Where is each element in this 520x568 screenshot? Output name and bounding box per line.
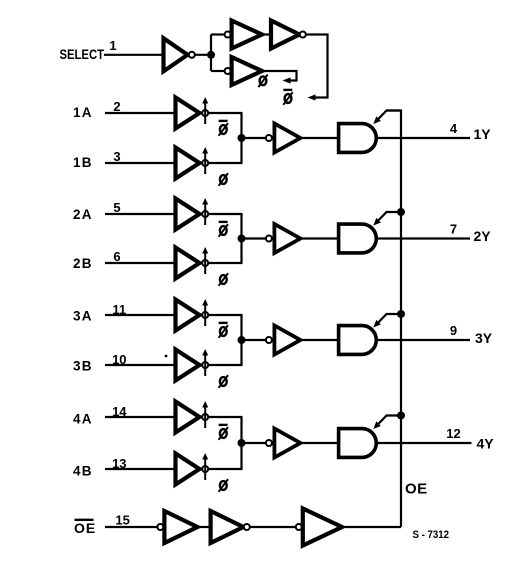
wire buffer to gate 1Y (300, 137, 337, 139)
svg-text:3: 3 (113, 149, 120, 164)
input label 3B (73, 359, 93, 374)
wire SELECT input (104, 54, 164, 56)
svg-text:2Y: 2Y (474, 228, 492, 244)
node OE tap 2Y (397, 208, 405, 216)
output label 2Y (474, 228, 492, 244)
wire 4B input (105, 468, 174, 470)
wire 3A input (105, 314, 174, 316)
AND gate G3Y (339, 326, 377, 355)
label phi (top) (258, 75, 267, 88)
inverter U4 (phi chain, input bubble) (225, 57, 262, 85)
pin 13 (112, 456, 126, 471)
wire U5 to U6 (198, 526, 211, 528)
pin 6 (113, 249, 120, 264)
buffer U3Y (input bubble) (266, 326, 301, 355)
svg-text:1B: 1B (73, 155, 93, 170)
input label 3A (73, 309, 93, 324)
net SELECT: input label (60, 46, 105, 62)
wire OE stub to gate 2Y (373, 212, 401, 226)
wire output 4Y (376, 442, 471, 444)
svg-text:15: 15 (115, 513, 129, 528)
input label 1B (73, 155, 93, 170)
wire output 1Y (376, 137, 470, 139)
wire 3A to junction (208, 315, 241, 340)
wire OE stub to gate 4Y (373, 416, 401, 430)
label phi-bar (4A control) (219, 425, 228, 440)
wire 4B to junction (208, 443, 241, 469)
net OE label (405, 481, 428, 498)
buffer 3B (phase-controlled) (176, 349, 209, 381)
pin 3 (113, 149, 120, 164)
svg-text:3Y: 3Y (475, 330, 493, 346)
label phi (3B control) (219, 375, 228, 388)
buffer U2Y (input bubble) (266, 224, 301, 253)
wire buffer to gate 4Y (300, 442, 337, 444)
wire output 2Y (376, 237, 470, 239)
AND gate G1Y (339, 124, 377, 153)
wire U7 to OE bus (342, 526, 401, 528)
wire U6 to U7 (250, 526, 295, 528)
wire OE-bar input (105, 526, 157, 528)
buffer U3 (output bubble) (271, 21, 306, 49)
wire 2B to junction (208, 239, 241, 264)
net OE-bar: input label with overline (74, 520, 96, 536)
svg-text:4Y: 4Y (477, 436, 495, 452)
buffer 4B (phase-controlled) (176, 453, 209, 485)
svg-text:5: 5 (113, 200, 120, 215)
svg-text:OE: OE (405, 481, 428, 498)
wire U2 to U3 (262, 33, 271, 35)
AND gate G4Y (339, 429, 377, 458)
label phi-bar (top) (283, 90, 292, 105)
svg-text:2: 2 (113, 99, 120, 114)
pin 11 (112, 302, 126, 317)
svg-text:7: 7 (450, 222, 457, 237)
output label 1Y (474, 126, 492, 142)
pin 14 (112, 404, 127, 419)
svg-text:S - 7312: S - 7312 (413, 529, 450, 541)
svg-text:1A: 1A (73, 105, 93, 120)
input label 4A (73, 412, 93, 427)
wire 1B to junction (208, 138, 241, 163)
label phi-bar (3A control) (219, 323, 228, 338)
output label 3Y (475, 330, 493, 346)
wire phi-bar routing (306, 35, 327, 101)
pin 9 (450, 323, 457, 338)
wire OE stub to gate 3Y (373, 314, 401, 328)
buffer 3A (phase-controlled) (176, 299, 209, 331)
svg-text:1Y: 1Y (474, 126, 492, 142)
wire 4A to junction (208, 417, 241, 443)
input label 1A (73, 105, 93, 120)
inverter U5 (OE chain, input bubble) (157, 511, 197, 543)
pin 1 (109, 38, 116, 53)
wire 2A to junction (208, 214, 241, 239)
pin 7 (450, 222, 457, 237)
label phi-bar (2A control) (219, 222, 228, 237)
wire junction to buffer 3Y (242, 339, 267, 341)
output label 4Y (477, 436, 495, 452)
buffer 1A (phase-controlled) (176, 97, 209, 129)
pin 12 (446, 426, 460, 441)
buffer U1Y (input bubble) (266, 124, 301, 153)
node speck (165, 355, 168, 358)
wire OE stub to gate 1Y (373, 111, 401, 125)
svg-text:6: 6 (113, 249, 120, 264)
svg-text:4B: 4B (73, 464, 93, 479)
input label 4B (73, 464, 93, 479)
svg-text:SELECT: SELECT (60, 46, 105, 62)
pin 15 (115, 513, 129, 528)
wire 3B input (105, 364, 174, 366)
pin 5 (113, 200, 120, 215)
buffer U7 (input bubble) (296, 509, 342, 546)
wire buffer to gate 2Y (300, 237, 337, 239)
buffer U4Y (input bubble) (266, 429, 301, 458)
wire output 3Y (376, 339, 470, 341)
input label 2B (73, 256, 93, 271)
node 2A/2B junction (238, 235, 246, 243)
wire phi routing (262, 71, 297, 84)
pin 4 (450, 121, 458, 136)
buffer 2B (phase-controlled) (176, 247, 209, 279)
wire 3B to junction (208, 340, 241, 365)
svg-text:9: 9 (450, 323, 457, 338)
wire buffer to gate 3Y (300, 339, 337, 341)
node 1A/1B junction (238, 134, 246, 142)
input label 2A (73, 207, 93, 222)
svg-text:4: 4 (450, 121, 458, 136)
label phi (2B control) (219, 273, 228, 286)
wire 1A input (105, 112, 174, 114)
buffer 4A (phase-controlled) (176, 401, 209, 433)
inverter U6 (output bubble) (211, 511, 250, 543)
buffer 2A (phase-controlled) (176, 198, 209, 230)
node 3A/3B junction (238, 336, 246, 344)
label phi (4B control) (219, 479, 228, 492)
svg-text:2B: 2B (73, 256, 93, 271)
wire OE vertical bus (387, 111, 402, 528)
svg-text:12: 12 (446, 426, 460, 441)
buffer 1B (phase-controlled) (176, 147, 209, 179)
node 4A/4B junction (238, 439, 246, 447)
svg-text:4A: 4A (73, 412, 93, 427)
wire 1B input (105, 162, 174, 164)
svg-text:3A: 3A (73, 309, 93, 324)
inverter U2 (phi-bar chain, input bubble) (225, 21, 262, 49)
node OE tap 3Y (397, 310, 405, 318)
wire node to branches (211, 35, 225, 72)
label S-7312 (413, 529, 450, 541)
label phi-bar (1A control) (219, 121, 228, 136)
label phi (1B control) (219, 173, 228, 186)
wire 2B input (105, 262, 174, 264)
pin 10 (112, 352, 126, 367)
svg-text:2A: 2A (73, 207, 93, 222)
inverter U1 (SELECT) (164, 38, 195, 71)
wire 1A to junction (208, 113, 241, 138)
node: select split junction (207, 51, 215, 59)
wire 4A input (105, 416, 174, 418)
node OE tap 4Y (397, 412, 405, 420)
pin 2 (113, 99, 120, 114)
wire junction to buffer 1Y (242, 137, 267, 139)
svg-text:OE: OE (74, 520, 96, 536)
AND gate G2Y (339, 224, 377, 253)
wire U1 output to node (195, 54, 211, 56)
wire 2A input (105, 213, 174, 215)
wire junction to buffer 4Y (242, 442, 267, 444)
svg-text:3B: 3B (73, 359, 93, 374)
wire junction to buffer 2Y (242, 237, 267, 239)
svg-text:1: 1 (109, 38, 116, 53)
